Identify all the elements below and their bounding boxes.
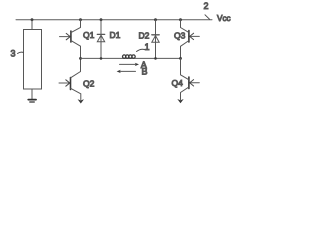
Q4 base arrowhead <box>190 80 194 86</box>
Q3 base arrowhead <box>190 33 194 39</box>
Q2 bar <box>70 78 72 90</box>
leader line for label 1 <box>137 49 145 51</box>
inductor 1 coil <box>123 55 136 58</box>
svg-text:Q2: Q2 <box>83 79 95 89</box>
wire Vcc top rail <box>16 19 212 21</box>
node rail-D2 junction <box>154 18 157 21</box>
svg-text:Q4: Q4 <box>172 78 184 88</box>
Q4 base stub <box>190 82 199 84</box>
arrow A <box>120 60 147 70</box>
D2 cathode bar <box>152 34 159 36</box>
ground <box>28 100 36 102</box>
Q1 bar <box>70 31 72 42</box>
svg-text:1: 1 <box>145 42 150 52</box>
Q3 bar <box>188 31 190 43</box>
node mid-Q1Q2 junction <box>79 57 82 60</box>
transistor Q4 <box>172 58 200 103</box>
node rail-D1 junction <box>100 18 103 21</box>
Q2 collector <box>71 58 81 77</box>
node mid-D1 junction <box>100 57 103 60</box>
Q2 base stub <box>59 82 69 84</box>
svg-text:Q3: Q3 <box>174 31 186 41</box>
D2 wire <box>155 20 157 59</box>
diode D1 <box>97 20 120 59</box>
resistor block 3 <box>24 30 42 90</box>
svg-text:D1: D1 <box>110 30 121 40</box>
svg-text:Q1: Q1 <box>83 30 95 40</box>
Q3 emitter <box>181 41 189 59</box>
wire rail to resistor 3 <box>31 20 33 30</box>
D1 triangle <box>97 35 104 42</box>
Q4 emitter arrowhead <box>177 99 183 103</box>
wire mid rail <box>81 57 181 59</box>
Q2 emitter <box>71 88 81 99</box>
Q1 base stub <box>60 36 70 38</box>
Q3 collector <box>181 20 189 33</box>
node mid-Q3Q4 junction <box>179 57 182 60</box>
D2 triangle <box>152 36 159 43</box>
D1 wire <box>100 20 102 59</box>
Q2 emitter arrowhead <box>78 99 84 103</box>
transistor Q1 <box>60 20 95 59</box>
Q1 collector <box>71 20 81 33</box>
wire resistor 3 to ground <box>31 89 33 99</box>
Q3 base stub <box>190 35 199 37</box>
Q1 emitter <box>71 41 81 59</box>
Q1 base arrowhead <box>66 33 70 39</box>
leader line for label 2 <box>205 15 210 19</box>
Q2 base arrowhead <box>66 80 70 86</box>
diode D2 <box>139 20 160 59</box>
Q4 emitter <box>181 87 189 100</box>
leader line for label 3 <box>18 52 24 53</box>
svg-text:Vcc: Vcc <box>217 14 231 23</box>
node mid-D2 junction <box>154 57 157 60</box>
arrow B <box>117 67 148 77</box>
D1 cathode bar <box>97 33 104 35</box>
Q4 bar <box>188 77 190 89</box>
svg-text:2: 2 <box>204 1 209 11</box>
transistor Q2 <box>59 58 95 103</box>
Q4 collector <box>181 58 189 79</box>
svg-text:3: 3 <box>11 49 16 59</box>
svg-text:B: B <box>142 67 148 77</box>
svg-text:D2: D2 <box>139 31 150 41</box>
transistor Q3 <box>174 20 199 59</box>
node rail-R3 junction <box>31 18 34 21</box>
node rail-Q3 junction <box>179 18 182 21</box>
node rail-Q1 junction <box>79 18 82 21</box>
